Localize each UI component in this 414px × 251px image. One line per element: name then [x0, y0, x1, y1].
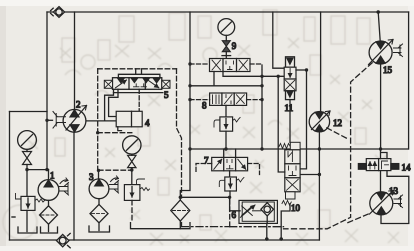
node: relief7 drain junction: [228, 196, 231, 199]
wire: valve5 left ports down: [105, 89, 117, 121]
wire: bottom enclosure line: [10, 239, 320, 241]
component 4 (control block): [116, 111, 142, 130]
node: valve10 stub junction: [318, 173, 321, 176]
svg-text:6: 6: [232, 210, 237, 220]
node: dashed junction: [96, 131, 99, 134]
node: motor12 return junction: [318, 147, 321, 150]
wire: valve14 bypass loop: [381, 171, 409, 224]
wire: motor12 feed from top line: [320, 12, 322, 112]
throttle valve inside block16: [242, 206, 253, 215]
pressure gauge G9: [218, 19, 235, 36]
valve V9a (3-pos directional below gauge): [210, 59, 251, 72]
wire(dashed): valveA right pilot corner: [250, 64, 262, 70]
relief valve RV7: [219, 177, 244, 191]
wire: valve7 top stubs: [224, 149, 236, 157]
block 16 (cooler bypass block): [239, 200, 277, 223]
node: left bus dot: [188, 84, 191, 87]
wire: valve11 feed from top line: [273, 12, 285, 68]
wire(dashed): valve8 right pilot: [247, 99, 262, 101]
tank T4 (center wide): [131, 223, 191, 229]
mark: small tick: [12, 216, 15, 218]
wire: valve10 lower right stub: [300, 174, 319, 176]
tank T3: [89, 226, 110, 232]
wire(dashed): valveA left pilot: [190, 63, 210, 65]
svg-text:10: 10: [291, 203, 301, 213]
node: left end dot: [188, 147, 191, 150]
wire(dashed): valve7 right pilot L: [248, 164, 260, 175]
svg-text:11: 11: [285, 103, 294, 113]
check valve inside block16: [261, 203, 274, 216]
filter F4 (center return filter): [171, 200, 190, 221]
shutoff valve (below gauge G2): [128, 155, 136, 167]
svg-text:4: 4: [145, 118, 150, 128]
wire: long manifold line: [190, 148, 408, 150]
wire: valve5 top gallery: [118, 69, 159, 78]
tank T1: [18, 227, 37, 233]
wire: pump1 to filter: [48, 200, 50, 206]
check valve V18 (bottom, on return line): [57, 233, 71, 247]
wire: valve11 bottom to valve10 top: [289, 100, 291, 143]
node: stub junction: [45, 119, 48, 122]
svg-text:9: 9: [232, 41, 237, 51]
wire: motor15 feed: [378, 12, 380, 41]
wire(dashed): valve7 left pilot L: [196, 164, 212, 174]
wire: feed into block 16: [230, 197, 240, 211]
valve 8 (3-pos directional): [210, 93, 247, 105]
enclosure(dashed): block16 left border: [229, 200, 231, 227]
pressure gauge G2: [123, 136, 141, 154]
wire: right bus vertical: [261, 70, 263, 149]
node: relief8 drain junction: [224, 147, 227, 150]
svg-text:2: 2: [76, 100, 81, 110]
wire(dashed): pilot to gauge G2 top: [98, 132, 132, 134]
wire: relief7 drain down: [229, 191, 231, 197]
svg-text:13: 13: [389, 186, 399, 196]
valve 10 (vertical 3-pos stack): [279, 142, 300, 205]
wire: pump2 suction down to tank line: [73, 132, 75, 240]
svg-text:5: 5: [164, 90, 169, 100]
wire: block16 drain to bottom line: [266, 223, 268, 240]
wire: pump3 to filter: [98, 199, 100, 205]
wire: valve8 down to relief: [225, 105, 227, 117]
node: dot: [305, 68, 308, 71]
wire: bus filter drop into tank: [179, 221, 181, 228]
shutoff valve (below gauge G1): [23, 152, 32, 165]
node: motor15 drop dot: [379, 147, 382, 150]
enclosure(dash-dot): block16 bottom: [230, 226, 284, 228]
node: right bus dot: [260, 84, 263, 87]
relief valve RV1: [16, 194, 45, 211]
wire: filter3 to tank: [98, 223, 100, 231]
motor 12 (variable): [309, 111, 330, 132]
svg-text:14: 14: [402, 163, 412, 173]
linkage(dashed): motor15 to motor12/13 shaft: [284, 63, 373, 229]
linkage(dashed): branch to motor13: [348, 213, 370, 222]
wire: valve5 bottom line right: [114, 92, 163, 94]
check valve V17 (top left, on pressure line): [51, 7, 65, 18]
node: pump3 top junction: [97, 169, 100, 172]
valve 5 (proportional directional valve): [104, 78, 170, 90]
node: valve10 feed junction: [277, 75, 280, 78]
wire: valve11 right line down to valve10: [300, 70, 307, 169]
filter F3: [90, 204, 108, 222]
enclosure(dash-dot): bottom of center: [182, 226, 230, 228]
pump P1: [38, 178, 68, 200]
pump P3: [89, 176, 118, 199]
node: bottom line dot: [279, 237, 283, 241]
wire: valve11 right port: [296, 69, 307, 71]
enclosure(dashed): pump station box: [98, 68, 177, 70]
wire(dashed): valve8 left pilot: [190, 99, 210, 101]
wire: relief8 down to manifold line: [225, 131, 227, 149]
node: bottom line dot: [265, 237, 269, 241]
wire: pump2 feed to top line: [74, 12, 76, 110]
relief valve RV8: [214, 117, 240, 131]
wire: valve14 to motor13: [380, 171, 382, 192]
pump P2 (variable): [53, 106, 87, 133]
node: bus dot: [260, 98, 263, 101]
wire: top main pressure line: [47, 11, 409, 13]
node: bus dot: [188, 98, 191, 101]
wire: left bus vertical: [180, 12, 190, 200]
node: right bus dot: [260, 147, 263, 150]
wire: pump3 feed stub: [98, 170, 100, 179]
filter F1: [40, 206, 58, 224]
wire: motor12 bottom to manifold: [318, 132, 320, 149]
wire: valve10 left port stub: [278, 76, 285, 172]
wire: right border drop to lower manifold line: [408, 12, 410, 149]
valve 7 (3-pos directional): [212, 157, 248, 170]
wire: filter1 to tank: [48, 224, 50, 231]
wire: pump1 feed stub: [48, 170, 50, 180]
svg-text:12: 12: [333, 118, 342, 128]
svg-text:8: 8: [202, 101, 207, 111]
wire: left enclosure top: [10, 111, 48, 113]
wire(dashed): pilot line pump3 to gauge drop: [99, 169, 132, 171]
svg-text:1: 1: [50, 171, 55, 181]
svg-text:15: 15: [383, 65, 393, 75]
shutoff valve 9: [222, 41, 230, 52]
wire: valveA port to valve11 supply line: [223, 72, 284, 77]
wire: right bottom corner riser: [318, 149, 320, 240]
wire: valve10 return drop: [281, 204, 290, 240]
node: junction at shutoff drop: [25, 168, 28, 171]
pressure gauge G1: [18, 131, 37, 150]
wire: valve14 feed stubs: [381, 149, 388, 159]
linkage(dashed): branch to motor12: [327, 128, 349, 140]
wire: gauge9 stem: [225, 35, 227, 58]
wire: relief drain to tank: [26, 210, 28, 231]
node: gauge drop junction: [130, 168, 133, 171]
wire: gauge line to pump 1 feed: [27, 169, 49, 171]
node: bus junction: [260, 75, 263, 78]
wire: gauge G1 stem: [26, 149, 28, 196]
wire(dashed): relief3 drain to tank: [131, 200, 133, 222]
wire: left corner drop: [46, 12, 48, 170]
node: bus dot: [188, 62, 191, 65]
wire: gauge G2 stem: [131, 154, 133, 184]
svg-text:3: 3: [89, 172, 94, 182]
relief valve RV3: [124, 179, 149, 200]
valve 11 (vertical 2-pos): [284, 57, 296, 100]
wire: valveA port to lower gallery: [190, 72, 262, 86]
motor 15 (variable): [369, 40, 403, 65]
wire: valve7 down to relief: [229, 171, 231, 177]
wire(dashed): valve5 pilot to component4: [138, 89, 140, 111]
wire: return line to relief7 drop: [180, 196, 229, 198]
wire: stub at x47: [47, 119, 53, 121]
tank T2: [41, 227, 58, 233]
valve 14 (2-pos directional): [358, 159, 398, 171]
node: junction left corner drop: [45, 168, 48, 171]
node: top line dot: [376, 10, 380, 14]
node: bus-filter junction: [179, 196, 182, 199]
wire: motor15 return drop: [380, 64, 382, 149]
motor 13 (variable): [370, 191, 403, 215]
wire: left enclosure vertical: [9, 112, 11, 241]
